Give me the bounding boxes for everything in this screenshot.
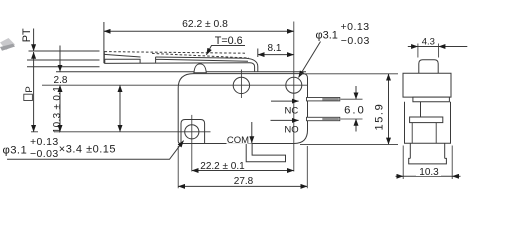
svg-text:P: P xyxy=(24,86,35,92)
dimension 2.8 xyxy=(59,46,61,72)
side view top block xyxy=(403,73,451,97)
dimension 4.3 (side view plunger width) xyxy=(418,44,439,58)
svg-text:6.0: 6.0 xyxy=(344,105,366,117)
side view inner verticals xyxy=(412,123,436,144)
actuator photo fragment (grey 3D plate, top-left edge) xyxy=(0,38,15,51)
second vertical dimension line (hole-row spacing) xyxy=(119,85,121,132)
svg-text:4.3: 4.3 xyxy=(422,36,435,47)
svg-text:×3.4 ±0.15: ×3.4 ±0.15 xyxy=(59,144,116,156)
PT leader with arrow to free-position line xyxy=(33,29,35,52)
dimension 27.8 xyxy=(178,146,307,188)
free position line (lever tip extension) xyxy=(29,50,100,52)
svg-text:PT: PT xyxy=(21,28,33,42)
svg-text:NO: NO xyxy=(284,124,298,135)
hole centerline row 1 (horizontal) xyxy=(42,84,307,86)
hole centerline row 2 (horizontal) xyxy=(31,131,211,133)
svg-text:22.2 ± 0.1: 22.2 ± 0.1 xyxy=(200,161,245,172)
dimension 10.3±0.1 vertical line xyxy=(59,85,61,132)
operating line (lever strip top extension) xyxy=(27,59,100,61)
side view bottom strip xyxy=(409,158,447,164)
lever solid top edge right span, bend to body xyxy=(156,57,258,72)
dimension 15.9 (right of main view) xyxy=(300,74,398,145)
lever dashed free position (lower dashed line) xyxy=(152,53,249,58)
side view upper bar xyxy=(413,97,450,102)
side view lower bar xyxy=(410,117,443,123)
svg-text:15.9: 15.9 xyxy=(373,103,385,131)
svg-text:−0.03: −0.03 xyxy=(30,148,59,160)
lever dashed free position (upper dashed line) xyxy=(105,52,246,54)
svg-text:2.8: 2.8 xyxy=(54,75,68,86)
switch body outline xyxy=(178,74,307,144)
dimension 6.0 between terminals xyxy=(341,99,363,119)
label COM with leader arrow xyxy=(251,122,253,143)
svg-text:−0.03: −0.03 xyxy=(341,35,370,47)
svg-text:8.1: 8.1 xyxy=(268,43,282,54)
svg-text:+0.13: +0.13 xyxy=(341,21,370,33)
lever strip left section xyxy=(105,59,140,63)
mounting hole top right xyxy=(286,77,302,93)
mounting hole bottom left with boss xyxy=(181,120,205,144)
svg-text:+0.13: +0.13 xyxy=(30,136,59,148)
COM terminal (L-shaped, bottom) xyxy=(246,144,285,162)
plunger dome on cover line xyxy=(194,64,206,73)
lever bottom line xyxy=(104,62,250,65)
side view foot block xyxy=(410,143,444,158)
dimension 10.3 (side view width) xyxy=(403,146,452,180)
svg-text:10.3: 10.3 xyxy=(419,167,439,178)
svg-text:φ3.1: φ3.1 xyxy=(316,29,338,41)
dimension 8.1 xyxy=(257,49,259,58)
lever solid top edge, left span xyxy=(104,54,140,57)
svg-text:10.3 ± 0.1: 10.3 ± 0.1 xyxy=(52,86,63,134)
svg-text:NC: NC xyxy=(285,105,299,116)
side view connector line xyxy=(420,102,422,117)
svg-text:φ3.1: φ3.1 xyxy=(3,144,28,156)
dimension 22.2±0.1 xyxy=(192,170,294,172)
svg-text:27.8: 27.8 xyxy=(234,176,254,187)
side view lower body xyxy=(405,102,451,143)
svg-text:62.2 ± 0.8: 62.2 ± 0.8 xyxy=(182,19,228,30)
dimension 62.2±0.8 xyxy=(103,22,105,63)
side view plunger xyxy=(419,60,438,73)
terminal NO (grey prong) xyxy=(307,117,340,120)
svg-text:COM: COM xyxy=(227,135,249,146)
leader from bottom label to bottom-left hole xyxy=(7,141,184,160)
lever strip right section with inner bend xyxy=(156,57,255,72)
cover top line (left extension to plunger) xyxy=(56,71,194,73)
dimension OP (square-P) vertical line xyxy=(33,52,35,132)
terminal NC (grey prong) xyxy=(307,98,340,101)
lever tip edge (vertical) xyxy=(103,51,105,63)
release line (left extension) xyxy=(27,66,100,68)
label square-P (rotated) xyxy=(24,94,33,100)
cover line across body xyxy=(206,71,306,73)
mounting hole top middle xyxy=(233,77,249,93)
